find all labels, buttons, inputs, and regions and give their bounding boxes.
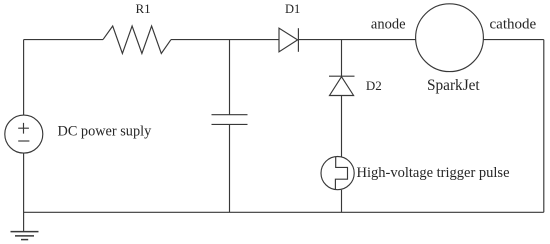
wire top to diode D2 xyxy=(341,40,343,77)
wire resistor to diode D1 xyxy=(171,39,279,41)
wire SparkJet to right corner xyxy=(483,39,543,41)
SparkJet gap (circle) xyxy=(416,4,484,72)
ground xyxy=(11,232,39,240)
resistor R1 xyxy=(103,26,171,54)
wire right vertical xyxy=(543,40,545,213)
wire D2 to trigger switch xyxy=(341,96,343,158)
wire D1 to SparkJet xyxy=(298,39,415,41)
wire top-left horizontal (source top to resistor) xyxy=(24,39,103,41)
minus sign xyxy=(18,140,29,142)
svg-text:SparkJet: SparkJet xyxy=(427,77,480,94)
svg-text:D1: D1 xyxy=(285,2,300,16)
svg-text:D2: D2 xyxy=(366,78,382,93)
wire capacitor branch top xyxy=(229,40,231,115)
trigger switch Q1 (circle) xyxy=(321,157,354,190)
capacitor C1 xyxy=(212,115,248,125)
svg-text:High-voltage trigger pulse: High-voltage trigger pulse xyxy=(357,165,510,181)
wire capacitor branch bottom xyxy=(229,124,231,212)
DC source U1 (circle) xyxy=(5,115,43,153)
plus sign xyxy=(18,123,29,134)
svg-text:cathode: cathode xyxy=(490,17,537,33)
trigger switch electrodes xyxy=(335,157,347,190)
diode D1 xyxy=(279,28,298,52)
wire bottom horizontal xyxy=(24,211,544,213)
wire source bottom to ground xyxy=(23,153,25,231)
diode D2 xyxy=(329,76,355,95)
svg-text:DC power suply: DC power suply xyxy=(58,123,153,139)
wire left vertical (top corner to source) xyxy=(23,40,25,116)
svg-text:anode: anode xyxy=(371,17,406,33)
svg-text:R1: R1 xyxy=(136,1,151,16)
wire switch to bottom xyxy=(341,190,343,212)
